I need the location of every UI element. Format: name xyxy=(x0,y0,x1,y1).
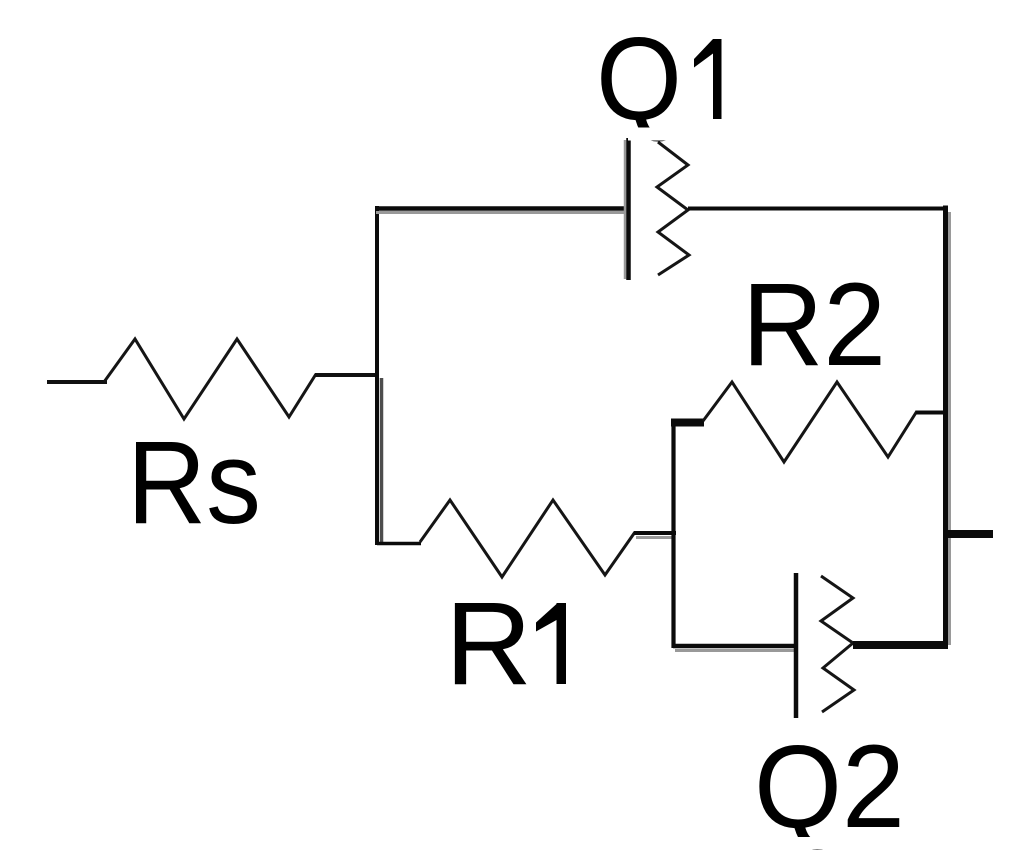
svg-text:Rs: Rs xyxy=(127,417,261,549)
label Rs xyxy=(127,417,261,549)
node B xyxy=(671,421,675,648)
wire xyxy=(315,373,379,377)
svg-text:Q: Q xyxy=(596,13,682,145)
wire xyxy=(688,207,947,211)
resistor R2 xyxy=(703,382,917,462)
svg-text:Q2: Q2 xyxy=(754,721,905,853)
transistor Q1 xyxy=(625,138,689,280)
transistor Q2 xyxy=(796,573,854,718)
wire xyxy=(673,646,795,651)
node A xyxy=(377,206,382,545)
wire xyxy=(853,641,948,649)
svg-text:R2: R2 xyxy=(742,259,886,391)
label R2 xyxy=(742,259,886,391)
label Q2 xyxy=(754,721,905,853)
resistor R1 xyxy=(420,500,635,577)
label R1 xyxy=(445,578,566,710)
wire xyxy=(47,380,107,384)
wire xyxy=(671,419,704,427)
wire xyxy=(946,206,950,648)
svg-text:R: R xyxy=(445,578,532,710)
resistor Rs xyxy=(104,339,316,419)
wire xyxy=(375,209,626,213)
label Q1 xyxy=(596,13,722,145)
wire xyxy=(377,542,421,546)
wire xyxy=(634,533,676,538)
wire xyxy=(944,530,993,538)
wire xyxy=(916,411,947,415)
